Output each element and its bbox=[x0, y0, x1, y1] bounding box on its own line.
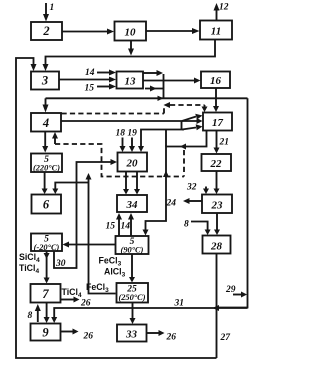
wire: block 25 down into block 33 bbox=[130, 303, 136, 325]
block 23 bbox=[202, 195, 232, 214]
wire: branch from riser into block 6 top bbox=[52, 183, 88, 195]
wire: right rail from collector down to line 31 bbox=[217, 98, 248, 307]
wire: vent arrow 12 up from block 11 bbox=[214, 3, 220, 21]
svg-text:18 19: 18 19 bbox=[116, 129, 138, 139]
wire: line 29 into right rail bbox=[225, 285, 247, 298]
svg-text:1: 1 bbox=[50, 3, 55, 13]
svg-text:15: 15 bbox=[85, 84, 95, 94]
svg-text:4: 4 bbox=[42, 116, 49, 130]
svg-text:TiCl4: TiCl4 bbox=[19, 263, 39, 275]
svg-text:32: 32 bbox=[186, 183, 197, 193]
wire: product line from block 5 (90C) left into block 5 (-20C) bbox=[63, 242, 116, 248]
svg-text:34: 34 bbox=[126, 199, 139, 211]
block 25 (250 C) bbox=[117, 283, 149, 303]
wire: block 13 bottom right down to collector line bbox=[145, 74, 164, 98]
wire: block 17 bottoms return line to block 4 region and down to block 5 (90C) bbox=[143, 131, 207, 236]
svg-text:7: 7 bbox=[42, 287, 49, 301]
svg-text:6: 6 bbox=[43, 198, 50, 212]
wire: feed arrow 1 into block 2 bbox=[43, 3, 49, 22]
wire: block 10 down to recycle line bbox=[128, 41, 134, 56]
wire: block 13 to block 16 bbox=[143, 78, 201, 84]
wire: vapor 8 up from block 9 into block 7 bbox=[28, 304, 41, 322]
svg-text:29: 29 bbox=[225, 285, 236, 295]
svg-text:14: 14 bbox=[121, 222, 131, 232]
block 34 bbox=[117, 195, 147, 212]
svg-text:24: 24 bbox=[166, 199, 177, 209]
block 5 (-20 C) bbox=[31, 234, 62, 253]
wire: block 4 to block 17 with fan of arrows bbox=[62, 114, 203, 130]
svg-text:26: 26 bbox=[83, 332, 94, 342]
block 33 bbox=[117, 325, 147, 342]
wire: product 26 out of block 33 bbox=[147, 330, 177, 343]
block 10 bbox=[115, 22, 147, 41]
wire: dashed line from block 4 right edge bbox=[62, 106, 165, 114]
wire: big recycle loop left border and bottom bbox=[16, 58, 217, 358]
svg-text:12: 12 bbox=[219, 3, 229, 13]
block 11 bbox=[200, 21, 232, 40]
wire: block 2 to block 10 bbox=[62, 29, 114, 35]
svg-text:15: 15 bbox=[106, 222, 116, 232]
label FeCl3 AlCl3 bbox=[99, 256, 126, 279]
block 5 (90 C) bbox=[116, 236, 149, 255]
svg-text:33: 33 bbox=[125, 329, 138, 341]
wire: arrow 32 into block 23 bbox=[186, 183, 209, 195]
wire: short arrow from block 13 upper right bbox=[143, 70, 163, 76]
wire: arrow 21 from block 17 into block 22 bbox=[214, 131, 220, 154]
svg-text:(250°C): (250°C) bbox=[118, 293, 145, 302]
block 7 bbox=[31, 284, 61, 303]
block 4 bbox=[31, 113, 61, 132]
wire: top collector line into block 4 bbox=[43, 96, 248, 113]
svg-text:23: 23 bbox=[211, 200, 224, 212]
svg-text:FeCl3: FeCl3 bbox=[86, 282, 109, 294]
svg-text:11: 11 bbox=[211, 26, 221, 38]
block 9 bbox=[31, 324, 61, 341]
svg-text:30: 30 bbox=[55, 259, 66, 269]
svg-text:26: 26 bbox=[80, 299, 91, 309]
svg-text:13: 13 bbox=[125, 76, 137, 88]
svg-text:20: 20 bbox=[126, 158, 139, 170]
svg-text:2: 2 bbox=[42, 24, 49, 38]
wire: block 5 (90C) down into block 25 bbox=[129, 254, 135, 283]
svg-text:TiCl4: TiCl4 bbox=[62, 287, 82, 299]
wire: line 8 into block 28 bbox=[184, 220, 211, 236]
wire: dashed reflux with left arrow and branch into block 17 top bbox=[164, 102, 208, 112]
wire: loop 30 below block 5 (-20C) bbox=[54, 245, 77, 270]
wire: block 23 down into block 28 bbox=[214, 213, 220, 235]
wire: block 5 (-20C) down into block 7 bbox=[44, 251, 50, 284]
block 16 bbox=[201, 72, 230, 89]
svg-text:14: 14 bbox=[85, 68, 95, 78]
svg-text:31: 31 bbox=[174, 299, 185, 309]
svg-text:(90°C): (90°C) bbox=[121, 246, 144, 255]
block 17 bbox=[203, 113, 232, 131]
wire: block 16 down into block 17 bbox=[213, 88, 219, 112]
wire: riser from 90C line up to dashed line and down to FeCl3 feed of block 25 bbox=[86, 173, 116, 294]
block 22 bbox=[202, 154, 232, 171]
svg-text:3: 3 bbox=[41, 74, 48, 88]
svg-text:27: 27 bbox=[220, 333, 232, 343]
svg-text:9: 9 bbox=[42, 326, 49, 340]
labels 18 19 with feed arrows into block 20 bbox=[116, 129, 138, 153]
block 6 bbox=[32, 195, 62, 214]
wire: riser from 90C line left into block 20 bbox=[77, 159, 118, 245]
label SiCl4 TiCl4 bbox=[19, 252, 40, 275]
wire: product TiCl4 26 out of block 7 bbox=[61, 287, 91, 309]
wire: dashed verticals from block 20 to block 34 bbox=[123, 172, 140, 195]
svg-text:(-20°C): (-20°C) bbox=[34, 243, 60, 252]
svg-text:8: 8 bbox=[28, 311, 33, 321]
wire: branch line down into block 20 bbox=[138, 130, 184, 153]
label 14 with feed arrow into block 13 bbox=[85, 68, 116, 78]
wire: short riser joining return line bbox=[165, 130, 167, 147]
svg-text:16: 16 bbox=[210, 75, 222, 87]
wire: output 24 from block 23 bbox=[166, 198, 203, 209]
svg-text:10: 10 bbox=[125, 27, 137, 39]
svg-text:21: 21 bbox=[219, 138, 230, 148]
svg-text:17: 17 bbox=[212, 117, 224, 129]
label 15 with feed arrow into block 13 bbox=[85, 84, 117, 94]
wire: line 31 from right rail into block 9 bbox=[51, 299, 247, 324]
wire: block 10 to block 11 bbox=[146, 28, 200, 34]
block 20 bbox=[118, 153, 148, 172]
svg-text:28: 28 bbox=[210, 241, 223, 253]
wire: block 3 to block 13 bbox=[59, 77, 116, 83]
block 3 bbox=[31, 72, 59, 90]
wire: streams 15 and 14 up from block 5 (90C) into block 34 bbox=[106, 213, 135, 236]
svg-text:26: 26 bbox=[166, 333, 177, 343]
svg-text:AlCl3: AlCl3 bbox=[104, 267, 126, 279]
wire: block 7 down into block 9 bbox=[44, 303, 50, 324]
wire: block 5 (220C) down into block 6 bbox=[42, 172, 48, 194]
svg-text:22: 22 bbox=[210, 158, 223, 170]
wire: block 28 down line 27 to bottom loop bbox=[217, 254, 232, 359]
wire: block 22 down into block 23 bbox=[214, 171, 220, 194]
block 2 bbox=[31, 22, 62, 40]
block 13 bbox=[117, 72, 144, 89]
svg-text:(220°C): (220°C) bbox=[33, 164, 60, 173]
wire: product 26 out of block 9 bbox=[61, 329, 94, 342]
wire: block 4 down into block 5 (220 C) bbox=[42, 132, 48, 153]
wire: return arrow up into block 4 bottom with dashed run bbox=[52, 132, 184, 177]
block 5 (220 C) bbox=[31, 154, 62, 173]
block 28 bbox=[203, 236, 231, 254]
svg-text:8: 8 bbox=[184, 220, 189, 230]
wire: block 11 down and left into block 3 bbox=[43, 40, 216, 72]
